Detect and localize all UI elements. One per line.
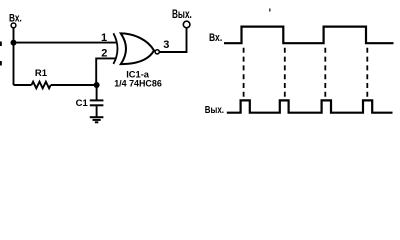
- svg-text:2: 2: [101, 48, 107, 60]
- svg-text:3: 3: [163, 39, 169, 51]
- svg-text:R1: R1: [35, 68, 48, 79]
- svg-text:1: 1: [101, 32, 107, 44]
- svg-text:1/4 74HC86: 1/4 74HC86: [114, 79, 162, 90]
- svg-text:Вх.: Вх.: [209, 32, 222, 44]
- svg-text:Вых.: Вых.: [205, 104, 224, 116]
- svg-text:Вх.: Вх.: [9, 12, 22, 24]
- svg-text:C1: C1: [76, 98, 89, 109]
- svg-text:Вых.: Вых.: [172, 9, 192, 21]
